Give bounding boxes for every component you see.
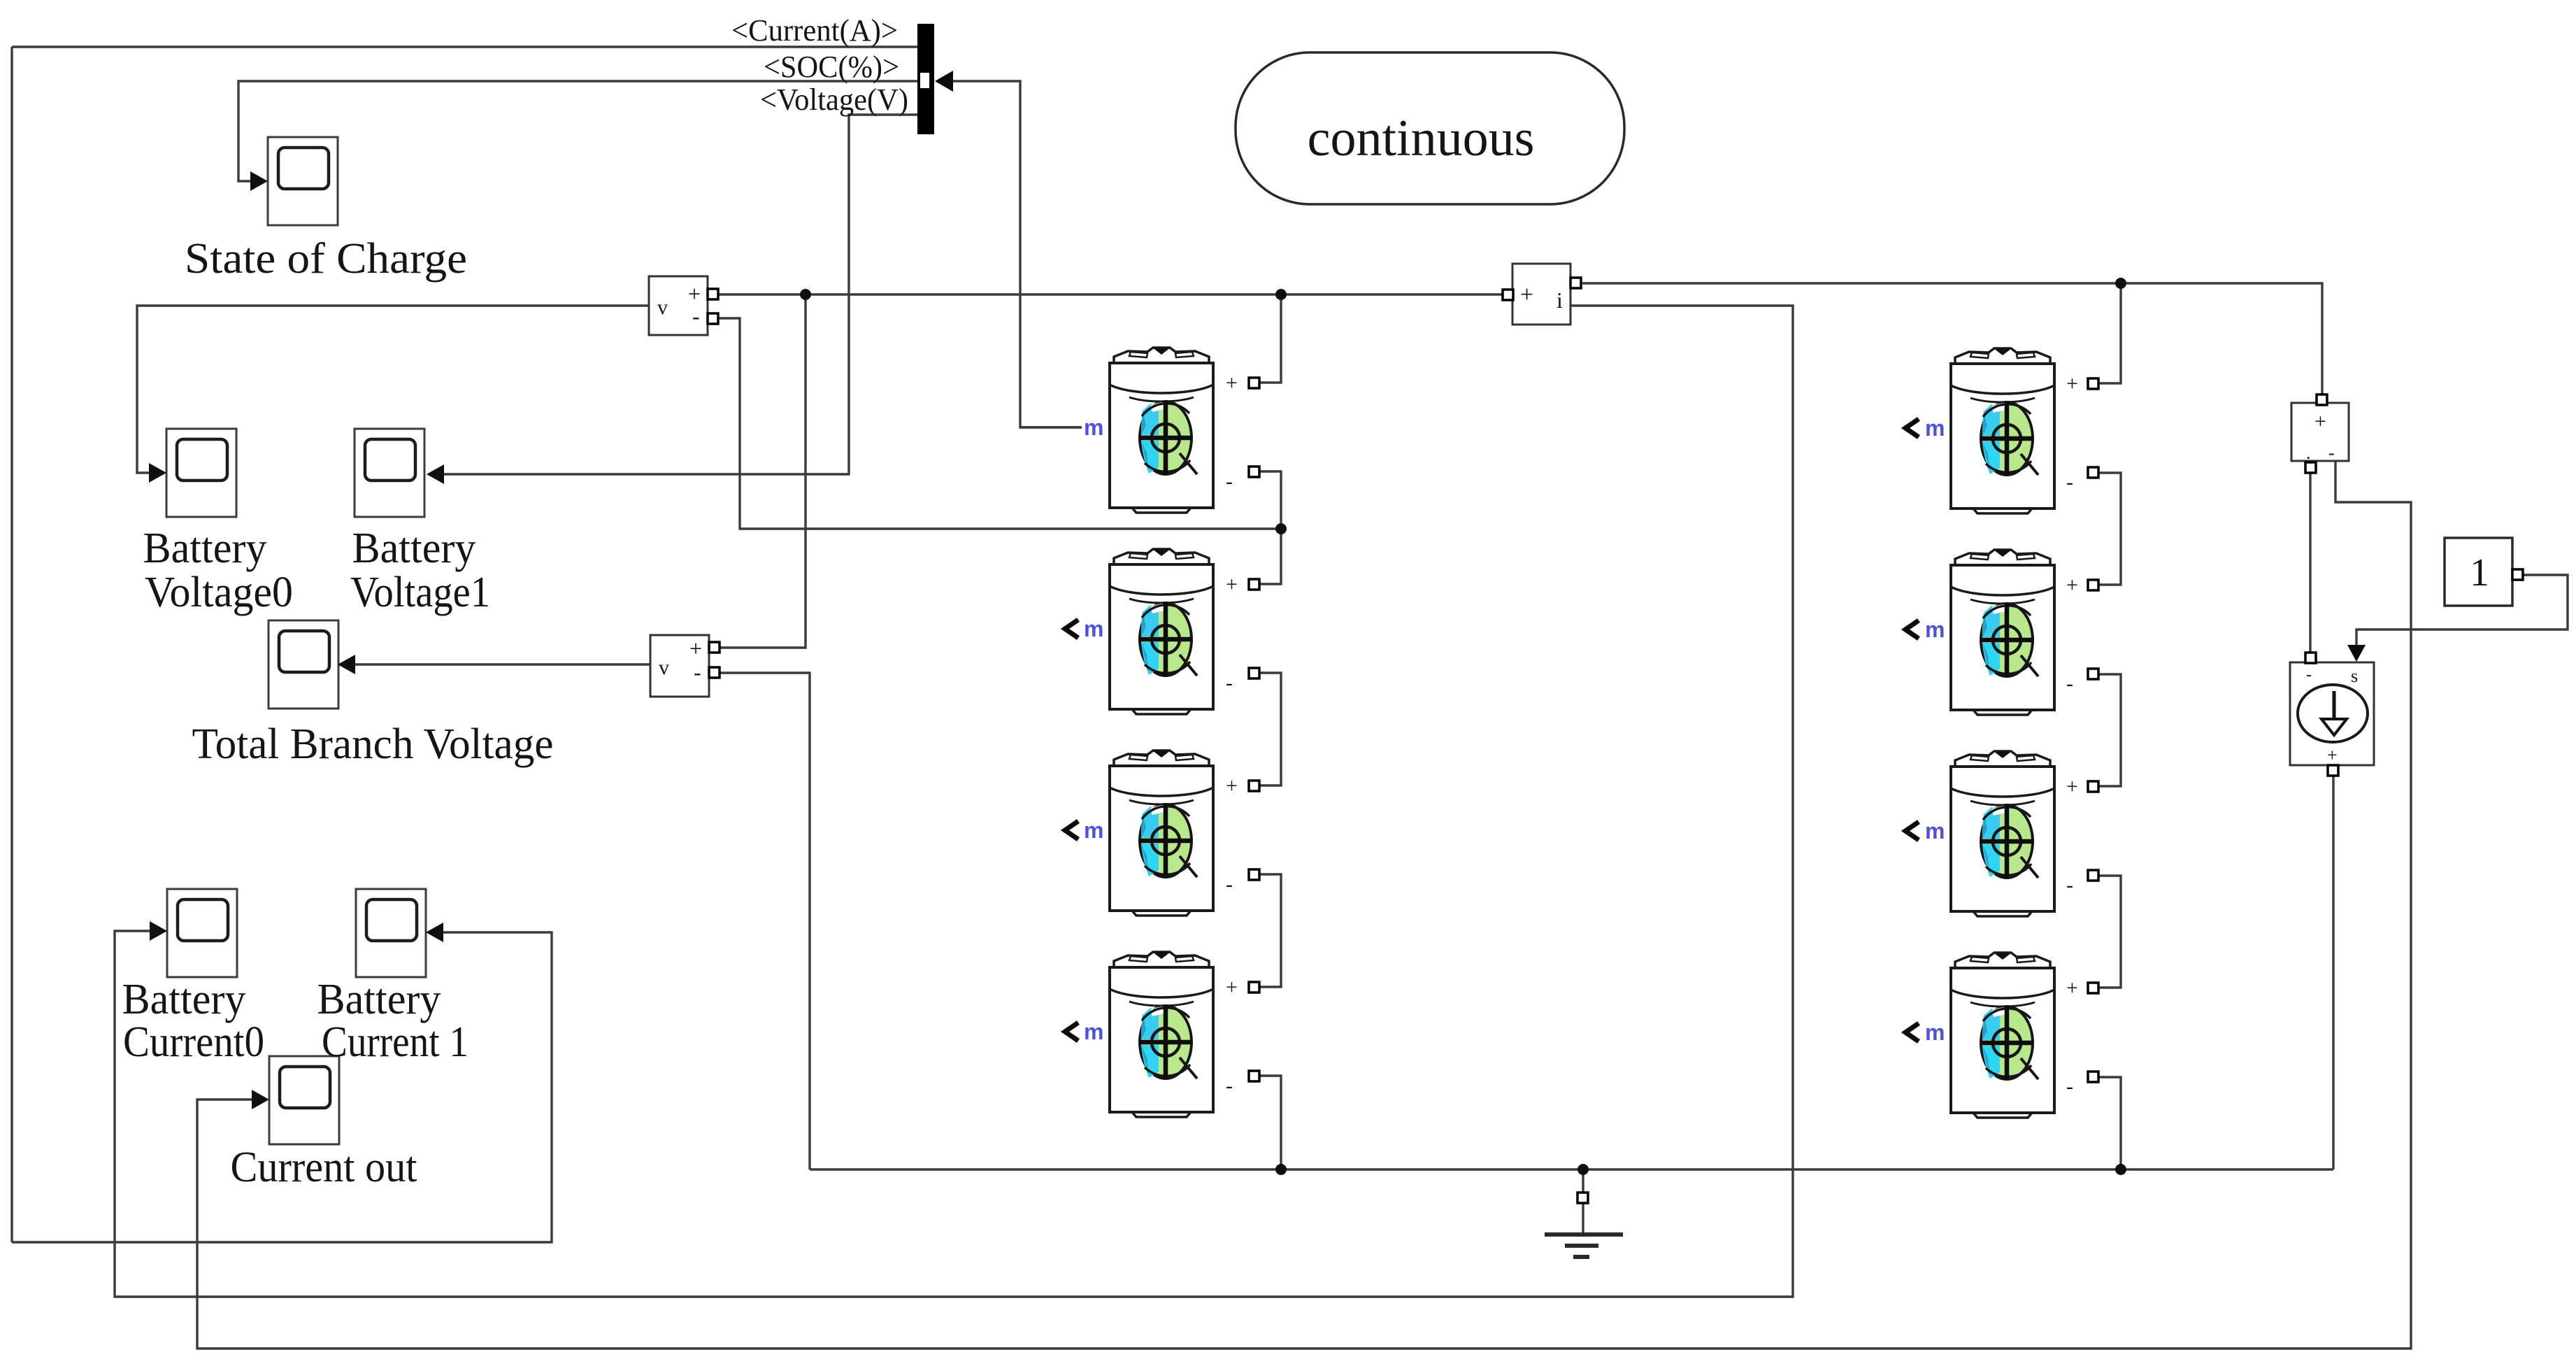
- svg-text:1: 1: [2470, 551, 2489, 595]
- wire bus selector input from battery m: [952, 81, 1082, 427]
- wire V2 output to Total Branch Voltage scope: [355, 663, 650, 665]
- battery R3: [1951, 751, 2054, 916]
- wire ammeter i signal to Battery Current0 scope: [115, 306, 1793, 1297]
- arrowhead into Total Branch Voltage: [338, 655, 355, 674]
- arrowhead into Battery Current 1: [426, 923, 443, 942]
- svg-text:Current out: Current out: [231, 1144, 417, 1191]
- svg-text:-: -: [1226, 873, 1233, 896]
- svg-text:Voltage0: Voltage0: [145, 569, 293, 616]
- battery L4 ports: [1065, 976, 1259, 1097]
- arrowhead into State of Charge: [250, 171, 268, 191]
- node junction bottom bus ground: [1577, 1164, 1589, 1175]
- svg-text:-: -: [2328, 443, 2335, 463]
- current measurement ammeter U1: [1503, 264, 1581, 325]
- wire bottom loop to Battery Current 1: [12, 932, 552, 1242]
- svg-text:m: m: [1084, 1019, 1103, 1044]
- svg-text:Voltage1: Voltage1: [350, 569, 490, 616]
- constant block 1: [2445, 538, 2523, 606]
- svg-text:+: +: [2066, 574, 2078, 597]
- node junction top bus at left column: [1275, 289, 1287, 300]
- wire battery R3 minus to battery R4 plus: [2097, 876, 2121, 988]
- svg-text:+: +: [2066, 775, 2078, 798]
- battery R2 ports: [1905, 574, 2098, 695]
- wire Voltage(V) from bus selector down to Battery Voltage1: [443, 115, 917, 474]
- wire ground lower stub: [1582, 1204, 1584, 1234]
- svg-text:-: -: [1226, 671, 1233, 695]
- wire V1 output to Battery Voltage0 scope: [137, 306, 649, 473]
- svg-text:v: v: [657, 296, 668, 319]
- voltage measurement V1: [649, 276, 718, 335]
- svg-text:<Current(A)>: <Current(A)>: [731, 13, 898, 48]
- svg-text:+: +: [2066, 372, 2078, 395]
- svg-text:Current0: Current0: [123, 1018, 264, 1066]
- svg-text:<SOC(%)>: <SOC(%)>: [764, 50, 899, 84]
- arrowhead into Current out: [252, 1090, 269, 1109]
- svg-text:+: +: [2327, 745, 2338, 765]
- scope Battery Current0: [167, 889, 237, 977]
- svg-text:-: -: [2066, 471, 2073, 494]
- voltage measurement V2: [650, 635, 720, 697]
- battery L2: [1110, 549, 1213, 714]
- svg-text:m: m: [1925, 1020, 1945, 1045]
- svg-text:v: v: [659, 656, 669, 679]
- battery R4: [1951, 953, 2054, 1118]
- svg-text:-: -: [692, 304, 700, 329]
- scope State of Charge: [268, 137, 338, 225]
- svg-text:s: s: [2351, 666, 2358, 686]
- svg-text:+: +: [2314, 410, 2326, 433]
- wire right column top drop to battery R1 plus: [2097, 283, 2121, 383]
- ground: [1545, 1193, 1623, 1257]
- wire Current(A) from bus selector to left edge: [12, 45, 917, 48]
- current measurement V3: [2291, 394, 2349, 473]
- svg-text:<Voltage(V): <Voltage(V): [760, 83, 908, 117]
- battery R1: [1951, 348, 2054, 513]
- wire constant 1 to current source control input: [2356, 575, 2568, 646]
- svg-text:m: m: [1925, 617, 1945, 642]
- svg-text:Battery: Battery: [143, 525, 267, 572]
- svg-text:State of Charge: State of Charge: [185, 235, 467, 283]
- scope Battery Voltage0: [166, 429, 236, 517]
- wire battery R2 minus to battery R3 plus: [2097, 674, 2121, 786]
- wire left-edge vertical down to bottom loop: [10, 47, 13, 1242]
- arrowhead into current source s input: [2347, 645, 2366, 662]
- wire V2 plus riser to top bus: [720, 294, 806, 648]
- wire battery L2 minus to battery L3 plus: [1259, 673, 1281, 785]
- node junction ammeter bus at right column: [2115, 278, 2126, 289]
- node junction left column V1 tap: [1275, 523, 1287, 534]
- wire ground stub: [1582, 1169, 1584, 1193]
- svg-text:Battery: Battery: [122, 976, 246, 1023]
- svg-text:m: m: [1084, 616, 1103, 641]
- wire battery R4 minus to bottom bus: [2097, 1077, 2121, 1169]
- svg-text:+: +: [1226, 371, 1238, 394]
- svg-text:m: m: [1925, 415, 1945, 441]
- wire battery L4 minus to bottom bus: [1259, 1076, 1281, 1169]
- wire bottom bus: [810, 1168, 2333, 1170]
- svg-text:-: -: [2066, 672, 2073, 695]
- wire battery R1 minus to battery R2 plus: [2097, 473, 2121, 585]
- battery L3: [1110, 750, 1213, 916]
- wire left column top drop to battery L1 plus: [1259, 294, 1281, 383]
- svg-text:continuous: continuous: [1308, 110, 1535, 167]
- battery L2 ports: [1065, 573, 1259, 695]
- svg-text:m: m: [1084, 415, 1103, 440]
- bus selector: [917, 24, 953, 134]
- arrowhead into Battery Current0: [150, 921, 167, 941]
- wire battery L3 minus to battery L4 plus: [1259, 874, 1281, 987]
- battery R4 ports: [1905, 976, 2098, 1098]
- battery R2: [1951, 550, 2054, 715]
- node junction bottom bus left column: [1275, 1164, 1287, 1175]
- scope Total Branch Voltage: [269, 620, 338, 709]
- battery L3 ports: [1065, 774, 1259, 896]
- wire battery L1 m to bus riser: [1020, 426, 1082, 428]
- svg-text:+: +: [1226, 774, 1238, 797]
- node junction top bus at V2 riser: [800, 289, 811, 300]
- wire V3 current path down to current source: [2309, 474, 2311, 653]
- svg-text:m: m: [1084, 818, 1103, 843]
- svg-text:Total Branch Voltage: Total Branch Voltage: [192, 720, 554, 768]
- scope Battery Voltage1 (mirrored input): [355, 429, 424, 517]
- svg-text:Current 1: Current 1: [322, 1018, 468, 1066]
- svg-text:Battery: Battery: [352, 525, 476, 572]
- svg-text:-: -: [1226, 1074, 1233, 1097]
- scope Battery Current 1: [356, 889, 426, 977]
- arrowhead into Battery Voltage0: [149, 463, 166, 483]
- battery R1 ports: [1905, 372, 2098, 494]
- svg-text:-: -: [1226, 470, 1233, 493]
- scope Current out: [269, 1056, 339, 1144]
- powergui block continuous: [1236, 52, 1624, 204]
- controlled current source: [2290, 645, 2374, 776]
- svg-text:+: +: [1226, 976, 1238, 999]
- arrowhead into Battery Voltage1: [427, 464, 444, 484]
- svg-text:i: i: [1557, 287, 1563, 313]
- battery L1 ports: [1084, 371, 1259, 493]
- svg-text:+: +: [688, 281, 701, 306]
- wire V2 minus down to bottom bus: [720, 673, 810, 1169]
- svg-text:-: -: [2066, 1075, 2073, 1098]
- wire V3 signal out to Current out scope: [197, 461, 2411, 1349]
- battery L1: [1110, 348, 1213, 513]
- wire V1 minus tap down to left branch node: [719, 318, 1281, 529]
- node junction bottom bus right column: [2115, 1164, 2126, 1175]
- wire ammeter out to far right: [1582, 283, 2322, 394]
- svg-text:-: -: [2306, 666, 2312, 684]
- svg-text:+: +: [1520, 282, 1533, 308]
- wire battery L1 minus to battery L2 plus: [1259, 471, 1281, 584]
- svg-text:m: m: [1925, 818, 1945, 844]
- svg-text:-: -: [694, 660, 701, 685]
- svg-text:+: +: [1226, 573, 1238, 596]
- wire current source bottom to bottom bus: [2332, 776, 2334, 1169]
- svg-text:+: +: [2066, 976, 2078, 999]
- svg-text:Battery: Battery: [317, 976, 441, 1023]
- wire top bus V1+ to ammeter: [719, 293, 1503, 295]
- svg-text:+: +: [689, 636, 702, 661]
- wire SOC(%) from bus selector to State of Charge scope: [238, 81, 917, 181]
- svg-text:.: .: [2306, 443, 2311, 463]
- svg-text:-: -: [2066, 874, 2073, 897]
- battery L4: [1110, 952, 1213, 1117]
- battery R3 ports: [1905, 775, 2098, 897]
